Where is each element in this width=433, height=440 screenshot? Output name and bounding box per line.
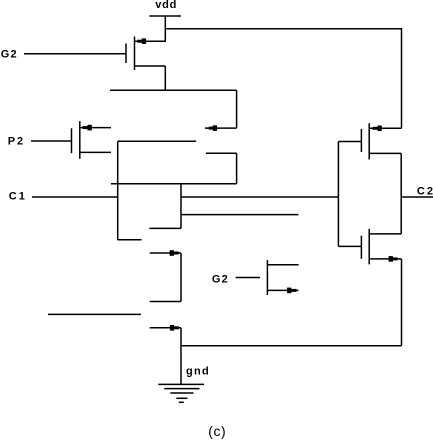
- svg-text:G2: G2: [1, 48, 18, 60]
- wire bracket B1 bottom stub: [150, 301, 181, 303]
- transistor M4 channel bar: [368, 123, 370, 159]
- transistor M1 drain stub: [135, 40, 166, 42]
- svg-text:vdd: vdd: [155, 0, 177, 11]
- transistor P2 top stub: [80, 127, 111, 129]
- wire V1 bottom tick: [118, 239, 142, 241]
- svg-text:P2: P2: [8, 136, 25, 148]
- arrow P2: [83, 126, 88, 129]
- wire C2: [401, 196, 433, 198]
- wire rail drop: [236, 90, 238, 128]
- arrow B2: [170, 325, 174, 331]
- wire rail: [110, 89, 237, 91]
- wire mid second: [181, 214, 299, 216]
- wire vertical V2: [180, 184, 182, 229]
- arrow Q3: [287, 288, 291, 294]
- transistor M4 gate wire: [338, 141, 361, 143]
- wire vertical V1: [117, 141, 119, 240]
- transistor M1 channel bar: [134, 37, 136, 71]
- wire right drop: [401, 29, 403, 129]
- transistor M5 bottom stub: [369, 258, 401, 260]
- wire mid long: [181, 196, 338, 198]
- svg-text:G2: G2: [212, 273, 229, 285]
- transistor M5 top stub: [369, 233, 401, 235]
- transistor Q3 bottom stub: [267, 289, 298, 291]
- wire top branch to right: [165, 28, 402, 30]
- wire gate P2: [31, 140, 71, 142]
- wire gnd stem: [180, 328, 182, 385]
- transistor P2 channel bar: [79, 121, 81, 159]
- transistor M5 channel bar: [368, 229, 370, 265]
- svg-text:gnd: gnd: [186, 366, 210, 378]
- arrow box stub: [209, 127, 214, 130]
- transistor M5 gate bar: [360, 236, 362, 259]
- arrow M1: [137, 40, 142, 43]
- transistor M4 drain stub: [369, 127, 401, 129]
- wire gate small G2: [236, 277, 261, 279]
- wire bottom branch: [181, 345, 402, 347]
- wire C1: [32, 196, 118, 198]
- wire bracket B2 arrow stub: [150, 327, 181, 329]
- transistor M4 source stub: [369, 152, 401, 154]
- arrow M5: [389, 256, 393, 262]
- transistor Q3 top stub: [267, 264, 298, 266]
- wire vdd stem: [164, 16, 166, 42]
- wire LR source drop: [401, 259, 403, 346]
- transistor M5 gate connect: [338, 245, 361, 247]
- svg-text:C1: C1: [9, 191, 27, 203]
- wire bracket upper stub: [206, 152, 237, 154]
- wire box arrow stub: [205, 127, 237, 129]
- svg-text:(c): (c): [208, 423, 226, 439]
- arrow M4: [373, 127, 378, 130]
- arrow B1: [170, 250, 174, 256]
- wire crossing line: [111, 183, 237, 185]
- wire top edge: [118, 140, 197, 142]
- wire bracket upper vertical: [236, 153, 238, 184]
- wire M1 source drop: [164, 66, 166, 90]
- wire V2 bottom tick: [149, 227, 181, 229]
- wire right gate drop: [337, 142, 339, 247]
- wire M4 source drop: [400, 153, 402, 234]
- transistor M1 source stub: [135, 65, 166, 67]
- transistor Q3 bar: [266, 260, 268, 295]
- transistor M1 gate bar: [125, 44, 127, 64]
- transistor P2 gate bar: [71, 128, 73, 153]
- transistor P2 bottom stub: [80, 151, 111, 153]
- transistor M4 gate bar: [360, 129, 362, 152]
- vdd rail: [150, 15, 182, 17]
- svg-text:C2: C2: [417, 186, 433, 198]
- ground: [158, 384, 204, 402]
- wire gate G2: [24, 53, 126, 55]
- wire bracket B1 top stub: [150, 252, 181, 254]
- wire bracket B1 vertical: [180, 253, 182, 302]
- wire floater: [48, 313, 141, 315]
